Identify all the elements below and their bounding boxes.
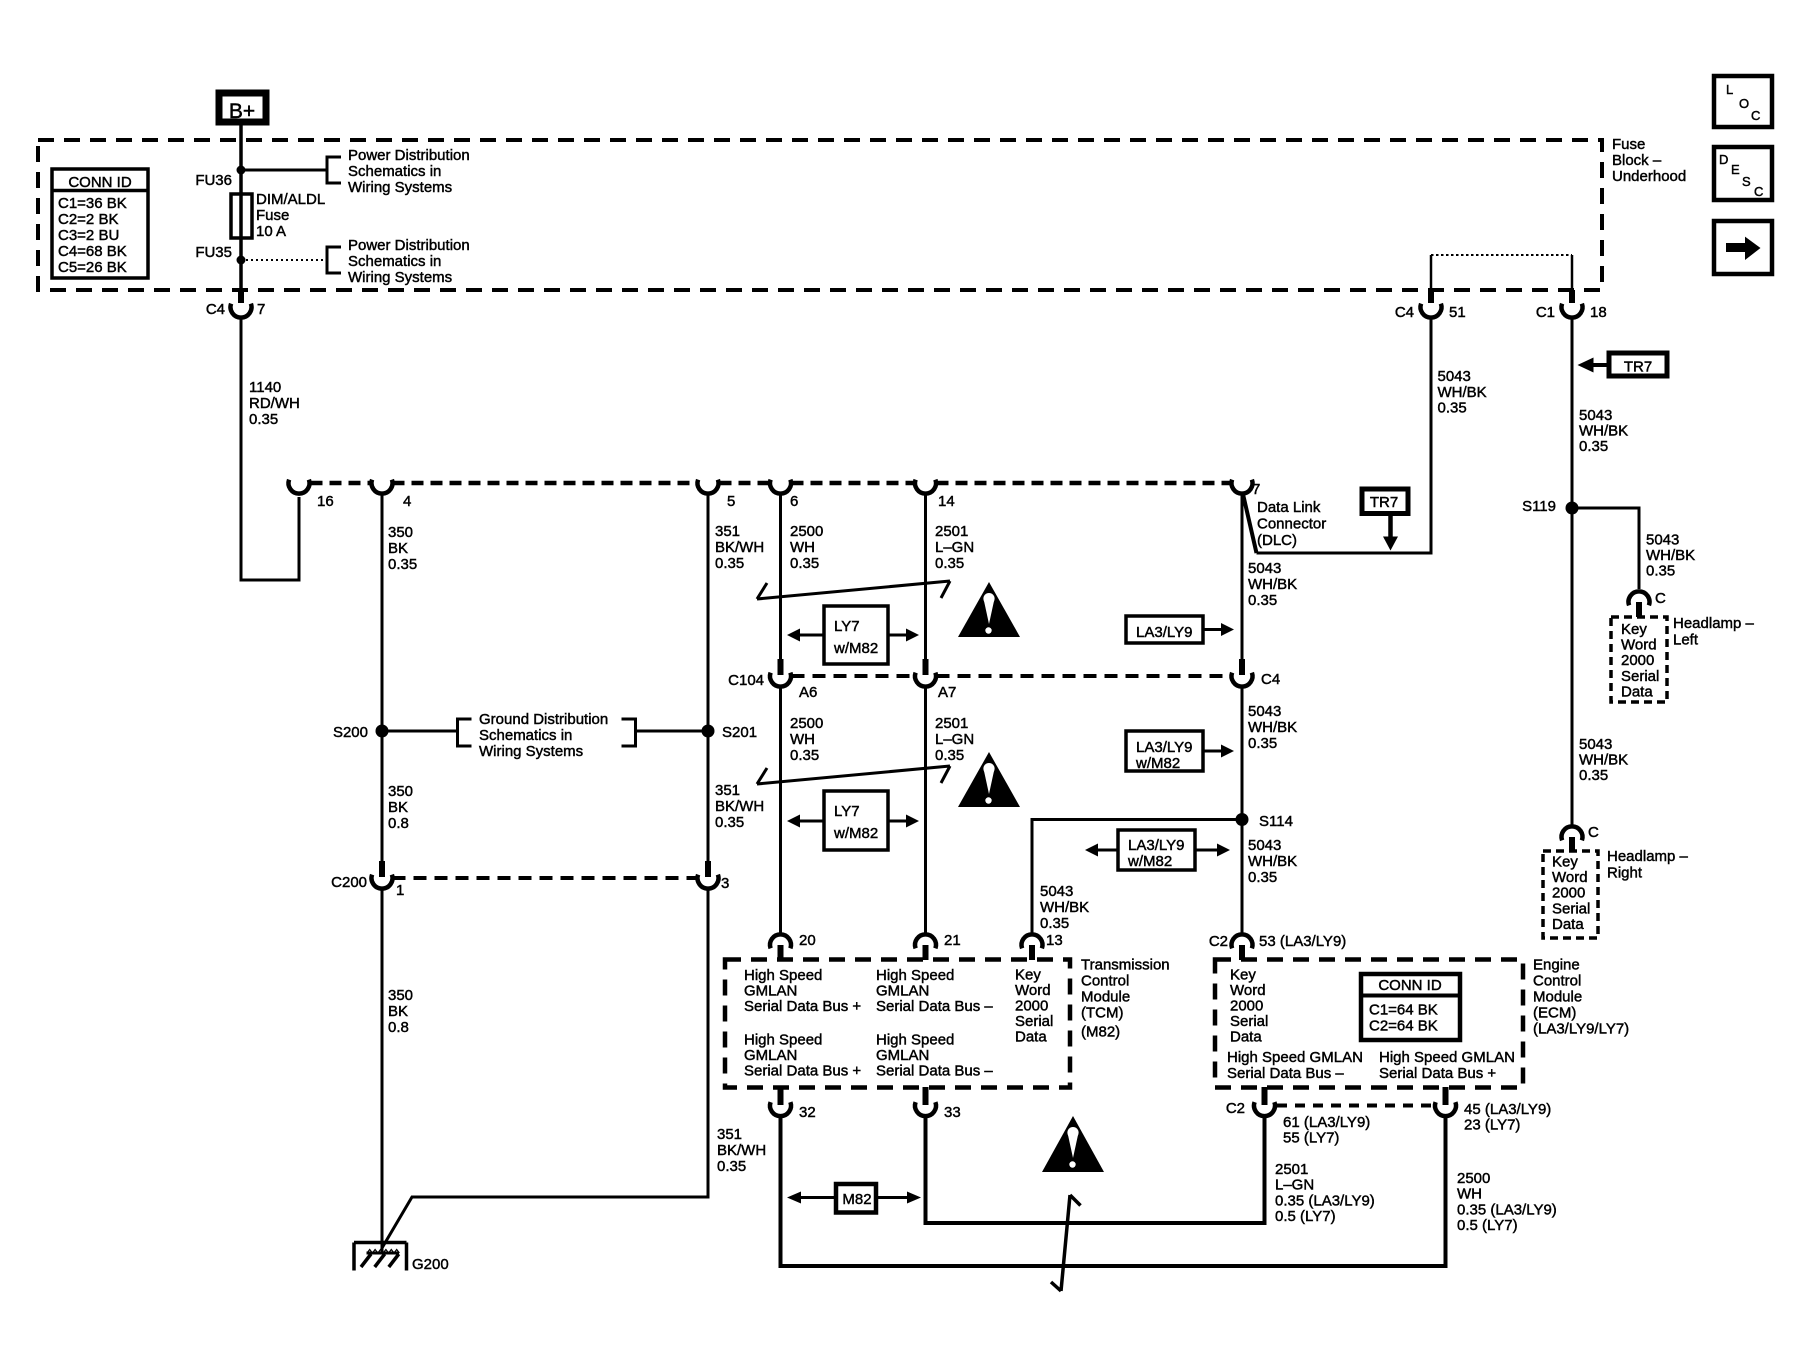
splice S200 <box>376 725 389 738</box>
svg-text:Power Distribution: Power Distribution <box>348 237 470 254</box>
svg-text:Schematics in: Schematics in <box>348 253 441 270</box>
svg-text:351: 351 <box>715 782 740 799</box>
svg-text:GMLAN: GMLAN <box>744 1047 797 1064</box>
svg-text:BK/WH: BK/WH <box>715 539 764 556</box>
svg-text:GMLAN: GMLAN <box>744 983 797 1000</box>
svg-text:21: 21 <box>944 932 961 949</box>
svg-text:WH: WH <box>790 539 815 556</box>
svg-text:WH: WH <box>1457 1186 1482 1203</box>
svg-text:5043: 5043 <box>1248 837 1281 854</box>
svg-text:Serial Data Bus –: Serial Data Bus – <box>876 998 993 1015</box>
svg-text:C3=2 BU: C3=2 BU <box>58 227 119 244</box>
svg-text:4: 4 <box>403 493 411 510</box>
headlamp right connector pin C <box>1562 826 1583 840</box>
svg-text:Module: Module <box>1533 989 1582 1006</box>
C200 pin 1 <box>379 861 385 877</box>
bracket ground distribution right <box>622 719 636 746</box>
wire 5043 WH/BK pin7 down to C4 <box>1241 493 1244 659</box>
junction FU36 <box>237 166 246 175</box>
svg-text:WH/BK: WH/BK <box>1248 853 1297 870</box>
Key Word 2000 Serial Data box (headlamp left) <box>1611 617 1667 702</box>
fuse block internal jumper C4-51 to C1-18 <box>1430 255 1433 290</box>
wire S200 to ground distribution note <box>382 730 458 733</box>
DLC pin 14 <box>915 480 936 494</box>
svg-text:Fuse: Fuse <box>1612 136 1645 153</box>
svg-text:13: 13 <box>1046 932 1063 949</box>
svg-text:C4=68 BK: C4=68 BK <box>58 243 127 260</box>
svg-text:C: C <box>1754 184 1763 199</box>
svg-text:Serial: Serial <box>1015 1013 1053 1030</box>
svg-text:WH/BK: WH/BK <box>1248 719 1297 736</box>
TCM pin 21 <box>915 934 936 948</box>
LA3/LY9 w/M82 option box lower <box>1118 830 1195 870</box>
svg-text:0.5 (LY7): 0.5 (LY7) <box>1457 1217 1518 1234</box>
splice S201 <box>702 725 715 738</box>
svg-text:51: 51 <box>1449 304 1466 321</box>
svg-text:53 (LA3/LY9): 53 (LA3/LY9) <box>1259 933 1346 950</box>
svg-text:C1: C1 <box>1536 304 1555 321</box>
svg-text:S201: S201 <box>722 724 757 741</box>
svg-text:High Speed: High Speed <box>876 1032 954 1049</box>
svg-text:0.35: 0.35 <box>1438 400 1467 417</box>
C200 pin 3 <box>705 861 711 877</box>
svg-text:E: E <box>1731 162 1740 177</box>
Key Word 2000 Serial Data box (headlamp right) <box>1543 851 1598 938</box>
svg-text:2501: 2501 <box>1275 1161 1308 1178</box>
svg-text:BK: BK <box>388 1003 408 1020</box>
svg-text:Fuse: Fuse <box>256 207 289 224</box>
wire 5043 WH/BK from fuse block C1-18 <box>1571 317 1574 827</box>
svg-text:16: 16 <box>317 493 334 510</box>
warning triangle middle <box>958 752 1020 807</box>
svg-text:S114: S114 <box>1259 813 1293 830</box>
svg-text:G200: G200 <box>412 1256 449 1273</box>
svg-text:TR7: TR7 <box>1370 494 1398 511</box>
LA3/LY9 option box upper <box>1126 616 1203 643</box>
TR7 reference mid with down arrow <box>1362 489 1408 514</box>
TCM pin 13 <box>1022 934 1043 948</box>
svg-text:0.35: 0.35 <box>1646 563 1675 580</box>
svg-text:7: 7 <box>257 301 265 318</box>
CONN ID table (fuse block) <box>52 169 148 278</box>
svg-text:w/M82: w/M82 <box>1127 853 1172 870</box>
forward arrow box <box>1714 221 1772 274</box>
headlamp left connector pin C <box>1629 591 1650 605</box>
svg-text:GMLAN: GMLAN <box>876 983 929 1000</box>
svg-text:2501: 2501 <box>935 523 968 540</box>
connector C1 pin 18 (fuse block bottom) <box>1569 290 1575 303</box>
svg-text:BK: BK <box>388 540 408 557</box>
svg-text:61 (LA3/LY9): 61 (LA3/LY9) <box>1283 1114 1370 1131</box>
svg-text:Ground Distribution: Ground Distribution <box>479 711 608 728</box>
svg-text:5043: 5043 <box>1646 532 1679 549</box>
wire 5043 WH/BK from fuse block C4-51 <box>1257 317 1432 553</box>
svg-text:Word: Word <box>1621 637 1657 654</box>
svg-text:C2=2 BK: C2=2 BK <box>58 211 118 228</box>
wire 5043 WH/BK C4 to S114 <box>1241 687 1244 935</box>
svg-text:CONN ID: CONN ID <box>68 174 132 191</box>
svg-text:BK: BK <box>388 799 408 816</box>
DLC pin 4 <box>372 480 393 494</box>
svg-text:14: 14 <box>938 493 955 510</box>
svg-text:High Speed GMLAN: High Speed GMLAN <box>1227 1049 1363 1066</box>
svg-text:2000: 2000 <box>1230 998 1263 1015</box>
TCM box dashed outline <box>725 960 1070 1088</box>
LY7 w/M82 option box upper <box>824 606 888 664</box>
svg-text:5043: 5043 <box>1579 407 1612 424</box>
svg-text:0.35: 0.35 <box>790 555 819 572</box>
svg-text:Connector: Connector <box>1257 516 1326 533</box>
svg-text:C1=64 BK: C1=64 BK <box>1369 1002 1438 1019</box>
svg-text:BK/WH: BK/WH <box>717 1142 766 1159</box>
svg-text:Data: Data <box>1015 1029 1047 1046</box>
svg-text:Block –: Block – <box>1612 152 1662 169</box>
svg-text:(ECM): (ECM) <box>1533 1005 1576 1022</box>
svg-text:Serial: Serial <box>1621 668 1659 685</box>
wire B+ to FU36 <box>239 125 243 172</box>
wire FU35 down to connector C4 pin 7 <box>239 260 243 290</box>
svg-text:Serial Data Bus +: Serial Data Bus + <box>744 998 861 1015</box>
svg-text:5043: 5043 <box>1040 883 1073 900</box>
wire 351 BK/WH C200-3 to G200 <box>382 889 708 1249</box>
svg-text:WH/BK: WH/BK <box>1646 547 1695 564</box>
svg-text:0.35: 0.35 <box>1579 767 1608 784</box>
ECM connector C2 pin 53 <box>1232 934 1253 948</box>
svg-text:(DLC): (DLC) <box>1257 532 1297 549</box>
wire 350 BK 0.35 pin4 to S200 <box>381 493 384 731</box>
wire 2501 L-GN pin14 to C104-A7 <box>924 493 927 659</box>
svg-text:Serial Data Bus +: Serial Data Bus + <box>1379 1065 1496 1082</box>
LOC box <box>1714 76 1772 127</box>
C104 pin C4 (right) <box>1239 659 1245 675</box>
wire 5043 WH/BK S114 to TCM pin 13 <box>1032 820 1242 935</box>
TR7 reference top right with left arrow <box>1609 353 1667 376</box>
DLC pin 6 <box>770 480 791 494</box>
svg-text:(TCM): (TCM) <box>1081 1005 1123 1022</box>
svg-text:3: 3 <box>721 875 729 892</box>
svg-text:WH/BK: WH/BK <box>1579 423 1628 440</box>
twisted pair symbol vertical <box>1061 1195 1070 1291</box>
svg-text:0.35: 0.35 <box>935 555 964 572</box>
svg-text:C2=64 BK: C2=64 BK <box>1369 1018 1438 1035</box>
svg-text:C4: C4 <box>1395 304 1414 321</box>
leader pin7 to fuse block wire <box>1243 492 1257 553</box>
svg-text:LA3/LY9: LA3/LY9 <box>1136 739 1192 756</box>
svg-text:S119: S119 <box>1522 498 1556 515</box>
svg-text:Data: Data <box>1230 1029 1262 1046</box>
svg-text:C200: C200 <box>331 874 367 891</box>
svg-text:L–GN: L–GN <box>1275 1177 1314 1194</box>
svg-text:18: 18 <box>1590 304 1607 321</box>
svg-text:Data: Data <box>1621 683 1653 700</box>
svg-text:RD/WH: RD/WH <box>249 395 300 412</box>
svg-text:5043: 5043 <box>1579 736 1612 753</box>
svg-text:Serial Data Bus –: Serial Data Bus – <box>1227 1065 1344 1082</box>
svg-text:2000: 2000 <box>1552 885 1585 902</box>
svg-text:2501: 2501 <box>935 715 968 732</box>
warning triangle upper <box>958 582 1020 637</box>
svg-text:2000: 2000 <box>1015 998 1048 1015</box>
svg-text:GMLAN: GMLAN <box>876 1047 929 1064</box>
svg-text:20: 20 <box>799 932 816 949</box>
svg-text:C5=26 BK: C5=26 BK <box>58 259 127 276</box>
svg-text:0.8: 0.8 <box>388 1019 409 1036</box>
svg-text:(LA3/LY9/LY7): (LA3/LY9/LY7) <box>1533 1021 1629 1038</box>
svg-text:1: 1 <box>396 882 404 899</box>
svg-text:B+: B+ <box>229 100 255 123</box>
wire 350 BK 0.8 S200 to C200 pin 1 <box>381 731 384 861</box>
svg-text:Key: Key <box>1230 967 1256 984</box>
wire 2501 L-GN TCM 33 to ECM 61 <box>926 1115 1265 1223</box>
svg-text:WH/BK: WH/BK <box>1438 384 1487 401</box>
svg-text:C1=36 BK: C1=36 BK <box>58 195 127 212</box>
svg-text:0.35: 0.35 <box>935 747 964 764</box>
svg-text:Serial Data Bus –: Serial Data Bus – <box>876 1063 993 1080</box>
splice S119 <box>1566 502 1579 515</box>
svg-text:DIM/ALDL: DIM/ALDL <box>256 191 325 208</box>
svg-text:Data Link: Data Link <box>1257 499 1321 516</box>
svg-text:6: 6 <box>790 493 798 510</box>
svg-text:Key: Key <box>1015 967 1041 984</box>
TCM pin 20 <box>770 934 791 948</box>
ECM pin 45/23 <box>1443 1087 1449 1105</box>
svg-text:Headlamp –: Headlamp – <box>1607 848 1689 865</box>
svg-text:Key: Key <box>1621 621 1647 638</box>
svg-text:(M82): (M82) <box>1081 1024 1120 1041</box>
svg-text:w/M82: w/M82 <box>833 640 878 657</box>
svg-text:L: L <box>1726 82 1733 97</box>
svg-text:351: 351 <box>717 1126 742 1143</box>
DLC pin 7 <box>1232 480 1253 494</box>
svg-text:A7: A7 <box>938 684 956 701</box>
svg-text:351: 351 <box>715 523 740 540</box>
svg-text:C2: C2 <box>1226 1100 1245 1117</box>
svg-text:TR7: TR7 <box>1624 359 1652 376</box>
svg-text:Schematics in: Schematics in <box>479 727 572 744</box>
svg-text:Schematics in: Schematics in <box>348 163 441 180</box>
svg-text:C4: C4 <box>206 301 225 318</box>
svg-text:w/M82: w/M82 <box>833 825 878 842</box>
svg-text:1140: 1140 <box>249 379 281 396</box>
svg-text:Serial Data Bus +: Serial Data Bus + <box>744 1063 861 1080</box>
wire 351 BK/WH pin5 upper <box>707 493 710 731</box>
svg-text:0.35: 0.35 <box>1579 438 1608 455</box>
svg-text:0.8: 0.8 <box>388 815 409 832</box>
ECM CONN ID table <box>1361 974 1460 1040</box>
svg-text:Serial: Serial <box>1552 900 1590 917</box>
svg-text:C4: C4 <box>1261 671 1280 688</box>
svg-text:Right: Right <box>1607 865 1643 882</box>
svg-text:0.35: 0.35 <box>1040 915 1069 932</box>
svg-text:23 (LY7): 23 (LY7) <box>1464 1117 1520 1134</box>
svg-text:LY7: LY7 <box>834 803 860 820</box>
svg-text:350: 350 <box>388 524 413 541</box>
svg-text:45 (LA3/LY9): 45 (LA3/LY9) <box>1464 1101 1551 1118</box>
svg-text:M82: M82 <box>842 1191 871 1208</box>
ECM connector C2 dashed line <box>1277 1104 1433 1108</box>
LY7 w/M82 option box lower <box>824 791 888 850</box>
Fuse Block - Underhood dashed outline <box>38 140 1602 290</box>
wire FU36 to power distribution note <box>241 169 327 172</box>
svg-text:Control: Control <box>1081 973 1129 990</box>
svg-text:0.35: 0.35 <box>388 556 417 573</box>
svg-text:C: C <box>1751 108 1760 123</box>
svg-text:FU36: FU36 <box>195 172 232 189</box>
wire 2500 WH TCM 32 to ECM 45 <box>781 1115 1446 1266</box>
bracket power distribution 2 <box>327 247 341 273</box>
wire 351 BK/WH S201 to C200 pin 3 <box>707 731 710 861</box>
svg-text:C2: C2 <box>1209 933 1228 950</box>
DESC box <box>1714 147 1772 200</box>
svg-text:Module: Module <box>1081 989 1130 1006</box>
DLC pin 5 <box>698 480 719 494</box>
svg-text:2000: 2000 <box>1621 652 1654 669</box>
svg-text:High Speed: High Speed <box>744 1032 822 1049</box>
svg-text:Underhood: Underhood <box>1612 168 1686 185</box>
ECM box dashed outline <box>1215 960 1523 1088</box>
svg-text:C: C <box>1588 824 1599 841</box>
svg-text:LA3/LY9: LA3/LY9 <box>1128 837 1184 854</box>
svg-text:2500: 2500 <box>790 523 823 540</box>
svg-text:Key: Key <box>1552 854 1578 871</box>
svg-text:Transmission: Transmission <box>1081 957 1170 974</box>
svg-text:WH: WH <box>790 731 815 748</box>
svg-text:0.35 (LA3/LY9): 0.35 (LA3/LY9) <box>1275 1192 1375 1209</box>
svg-text:0.35: 0.35 <box>249 411 278 428</box>
svg-text:LA3/LY9: LA3/LY9 <box>1136 624 1192 641</box>
LA3/LY9 w/M82 option box right <box>1126 731 1203 771</box>
connector C4 pin 51 (fuse block bottom) <box>1428 290 1434 303</box>
ECM C2 pin 61/55 <box>1262 1087 1268 1105</box>
svg-text:0.5 (LY7): 0.5 (LY7) <box>1275 1208 1336 1225</box>
wire S119 branch to headlamp left <box>1572 508 1639 589</box>
svg-text:55 (LY7): 55 (LY7) <box>1283 1130 1339 1147</box>
svg-text:Left: Left <box>1673 632 1699 649</box>
wire 2500 WH A6 to TCM pin 20 <box>779 687 782 935</box>
svg-text:FU35: FU35 <box>195 244 232 261</box>
svg-text:C: C <box>1655 590 1666 607</box>
B+ power feed symbol <box>219 93 266 122</box>
connector C200 dashed line <box>393 876 698 880</box>
connector C104 dashed line <box>792 674 916 678</box>
C104 pin A7 <box>923 659 929 675</box>
svg-text:350: 350 <box>388 783 413 800</box>
svg-text:Data: Data <box>1552 916 1584 933</box>
svg-text:Power Distribution: Power Distribution <box>348 147 470 164</box>
svg-text:Wiring Systems: Wiring Systems <box>348 179 452 196</box>
DLC connector dashed line <box>311 481 372 486</box>
DLC pin 16 <box>289 480 310 494</box>
svg-text:WH/BK: WH/BK <box>1040 899 1089 916</box>
svg-text:w/M82: w/M82 <box>1135 755 1180 772</box>
svg-text:Serial: Serial <box>1230 1013 1268 1030</box>
dotted wire FU35 to power distribution note <box>241 259 327 261</box>
svg-text:S200: S200 <box>333 724 368 741</box>
wire 1140 RD/WH from C4-7 to DLC pin 16 <box>241 317 299 580</box>
svg-text:High Speed GMLAN: High Speed GMLAN <box>1379 1049 1515 1066</box>
svg-text:0.35: 0.35 <box>1248 735 1277 752</box>
svg-text:Word: Word <box>1015 982 1051 999</box>
svg-text:WH/BK: WH/BK <box>1248 576 1297 593</box>
junction FU35 <box>237 256 246 265</box>
svg-text:CONN ID: CONN ID <box>1378 977 1442 994</box>
wire 2500 WH pin6 to C104-A6 <box>779 493 782 659</box>
svg-text:S: S <box>1742 174 1751 189</box>
svg-text:D: D <box>1719 152 1728 167</box>
svg-text:5: 5 <box>727 493 735 510</box>
bracket power distribution 1 <box>327 157 341 183</box>
warning triangle lower <box>1042 1116 1104 1172</box>
TCM pin 33 <box>923 1087 929 1105</box>
svg-text:Headlamp –: Headlamp – <box>1673 615 1755 632</box>
svg-text:7: 7 <box>1252 481 1260 498</box>
svg-text:5043: 5043 <box>1248 703 1281 720</box>
svg-text:High Speed: High Speed <box>876 967 954 984</box>
svg-text:0.35: 0.35 <box>715 555 744 572</box>
svg-text:Word: Word <box>1552 869 1588 886</box>
svg-text:33: 33 <box>944 1104 961 1121</box>
svg-text:Control: Control <box>1533 973 1581 990</box>
svg-text:350: 350 <box>388 987 413 1004</box>
svg-text:C104: C104 <box>728 672 764 689</box>
svg-text:2500: 2500 <box>790 715 823 732</box>
svg-text:0.35: 0.35 <box>715 814 744 831</box>
svg-text:High Speed: High Speed <box>744 967 822 984</box>
svg-text:5043: 5043 <box>1438 368 1471 385</box>
svg-text:A6: A6 <box>799 684 817 701</box>
svg-text:0.35: 0.35 <box>717 1158 746 1175</box>
fuse DIM/ALDL 10A <box>239 170 243 260</box>
svg-text:0.35 (LA3/LY9): 0.35 (LA3/LY9) <box>1457 1201 1557 1218</box>
ground G200 <box>354 1241 407 1245</box>
wire 350 BK 0.8 C200-1 to G200 <box>381 889 384 1254</box>
svg-text:0.35: 0.35 <box>1248 869 1277 886</box>
twisted pair symbol lower <box>757 766 950 784</box>
M82 option box with arrows <box>836 1184 876 1213</box>
svg-text:Engine: Engine <box>1533 957 1580 974</box>
svg-text:Wiring Systems: Wiring Systems <box>348 269 452 286</box>
wire note to S201 <box>636 730 709 733</box>
svg-text:L–GN: L–GN <box>935 539 974 556</box>
bracket ground distribution left <box>458 719 472 746</box>
svg-text:32: 32 <box>799 1104 816 1121</box>
svg-text:O: O <box>1739 96 1749 111</box>
wire 2501 L-GN A7 to TCM pin 21 <box>924 687 927 935</box>
svg-text:L–GN: L–GN <box>935 731 974 748</box>
splice S114 <box>1236 813 1249 826</box>
svg-text:5043: 5043 <box>1248 560 1281 577</box>
svg-text:2500: 2500 <box>1457 1170 1490 1187</box>
TCM pin 32 <box>778 1087 784 1105</box>
C104 pin A6 <box>778 659 784 675</box>
svg-text:Wiring Systems: Wiring Systems <box>479 743 583 760</box>
svg-text:10 A: 10 A <box>256 223 286 240</box>
svg-text:Word: Word <box>1230 982 1266 999</box>
svg-text:0.35: 0.35 <box>1248 592 1277 609</box>
svg-text:LY7: LY7 <box>834 618 860 635</box>
svg-text:WH/BK: WH/BK <box>1579 752 1628 769</box>
twisted pair symbol upper <box>757 581 950 599</box>
connector C4 pin 7 (fuse block bottom) <box>238 290 244 303</box>
svg-text:0.35: 0.35 <box>790 747 819 764</box>
svg-text:BK/WH: BK/WH <box>715 798 764 815</box>
